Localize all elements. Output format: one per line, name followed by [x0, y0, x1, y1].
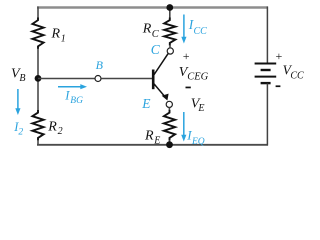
svg-text:B: B [19, 73, 25, 84]
svg-text:BG: BG [70, 96, 83, 106]
svg-text:EQ: EQ [191, 137, 205, 147]
svg-text:E: E [153, 135, 160, 146]
svg-text:R: R [47, 119, 57, 134]
svg-text:+: + [275, 49, 283, 63]
svg-text:2: 2 [58, 126, 63, 137]
svg-text:C: C [152, 29, 160, 40]
svg-text:1: 1 [61, 33, 66, 44]
svg-text:R: R [51, 27, 61, 42]
svg-text:CEG: CEG [187, 71, 208, 82]
svg-text:+: + [182, 49, 190, 63]
svg-text:B: B [96, 58, 104, 72]
svg-text:C: C [151, 42, 161, 57]
svg-text:R: R [142, 21, 152, 36]
svg-text:CC: CC [290, 70, 304, 81]
svg-text:CC: CC [194, 26, 208, 37]
svg-text:E: E [197, 103, 204, 114]
svg-text:2: 2 [18, 128, 23, 138]
svg-text:R: R [144, 129, 154, 144]
svg-text:E: E [141, 96, 151, 111]
